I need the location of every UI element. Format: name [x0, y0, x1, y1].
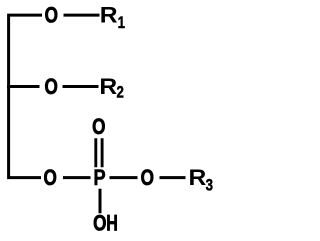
wire double bond P=O [96, 138, 102, 167]
wire bond O2-R2 [63, 85, 99, 88]
svg-text:R: R [188, 165, 206, 189]
svg-text:R: R [100, 3, 118, 27]
wire bond O1-R1 [64, 14, 100, 17]
wire bond P-O4 [110, 176, 138, 179]
svg-text:3: 3 [206, 176, 213, 195]
svg-text:O: O [93, 212, 106, 237]
svg-text:O: O [141, 166, 154, 191]
wire bond O3-P [63, 176, 91, 179]
svg-text:O: O [45, 3, 58, 28]
svg-text:2: 2 [117, 83, 124, 102]
wire bond C2-O2 [7, 85, 40, 88]
svg-text:O: O [92, 115, 105, 140]
svg-text:O: O [45, 75, 58, 100]
svg-text:P: P [93, 167, 105, 191]
wire bond P-OH [99, 189, 102, 214]
wire bond O4-R3 [160, 176, 186, 179]
svg-text:R: R [99, 74, 117, 98]
svg-text:H: H [106, 212, 118, 236]
svg-text:1: 1 [118, 13, 126, 32]
svg-text:O: O [44, 166, 57, 191]
wire glycerol backbone (C1-C2-C3 with top and bottom bonds) [9, 15, 42, 178]
